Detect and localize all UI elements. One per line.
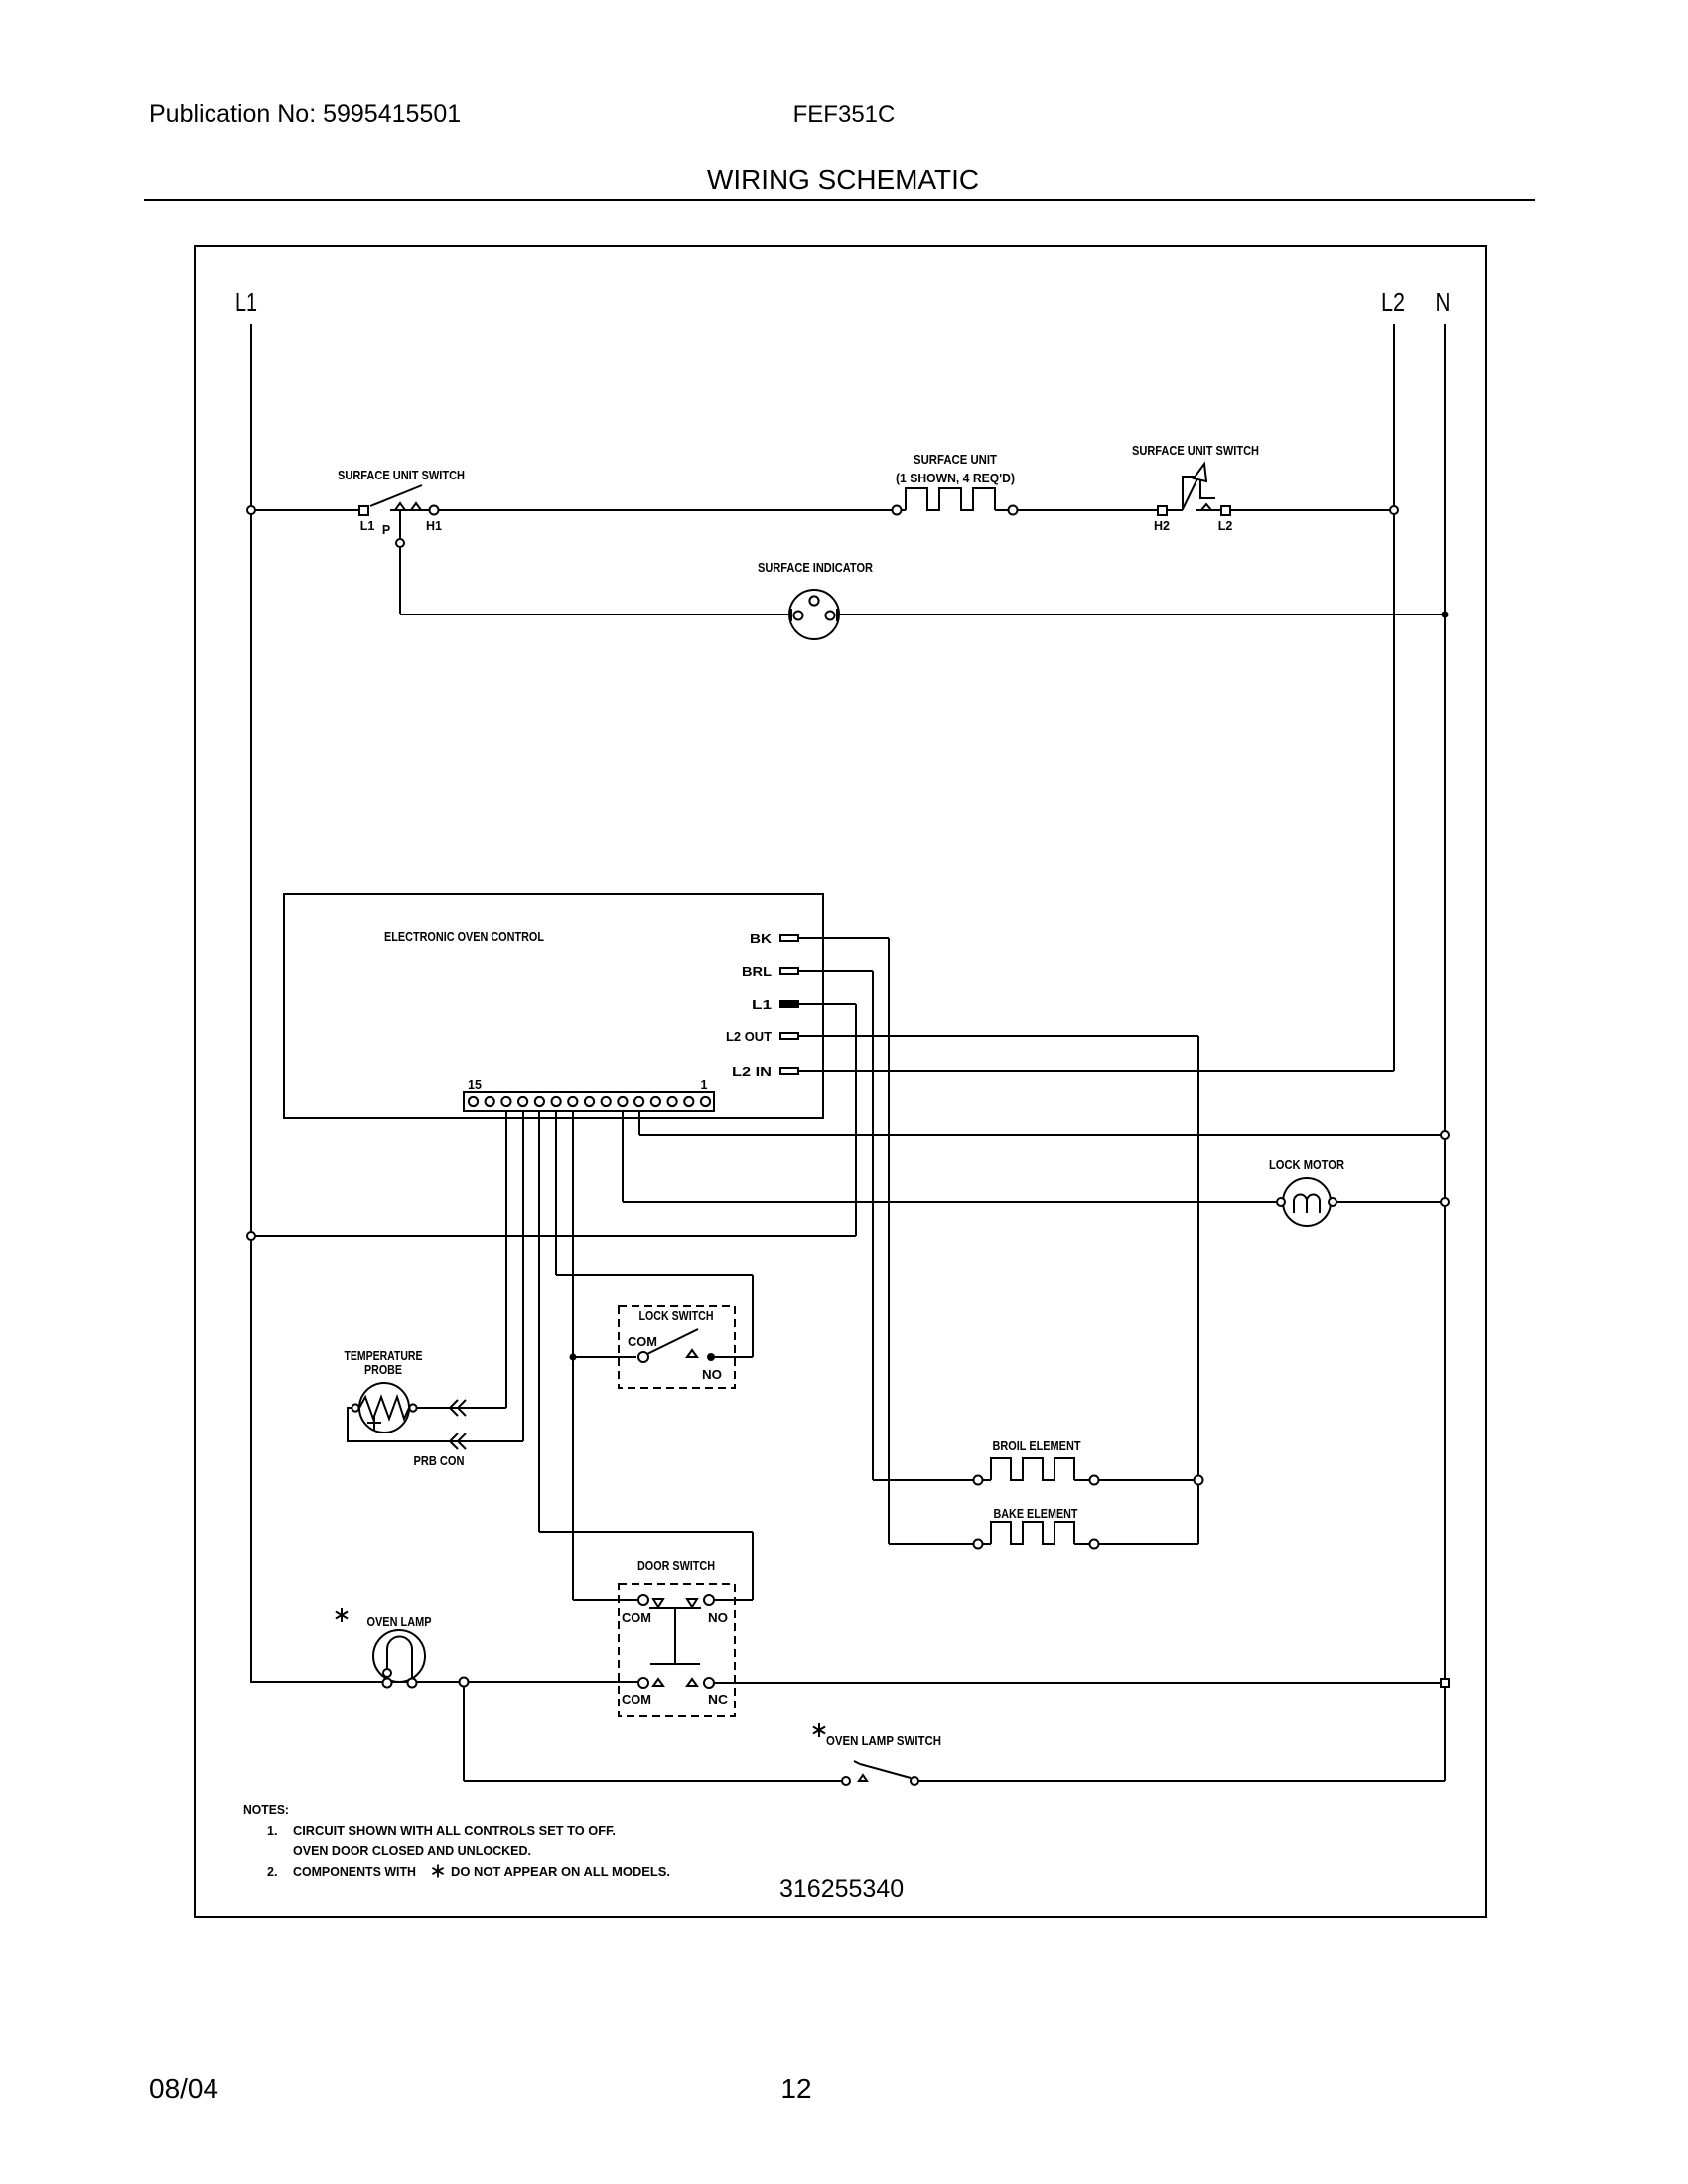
svg-text:1.: 1. [267,1824,277,1838]
svg-text:L2 OUT: L2 OUT [726,1030,772,1044]
lock switch S3 contacts [638,1352,648,1362]
wire L1 to surface unit switch [255,509,359,511]
oven lamp switch S5 [842,1777,850,1785]
svg-text:BROIL ELEMENT: BROIL ELEMENT [993,1439,1081,1453]
svg-text:OVEN DOOR CLOSED AND UNLOCKED.: OVEN DOOR CLOSED AND UNLOCKED. [293,1844,531,1858]
electronic oven control U1 box [284,894,823,1118]
U1 terminal L1 [780,1001,798,1007]
junction L2OUT / broil row [1195,1476,1203,1485]
svg-text:LOCK MOTOR: LOCK MOTOR [1269,1159,1344,1172]
temperature probe RT1 [359,1383,409,1433]
oven lamp DS2 [373,1630,425,1682]
surface unit heater element [893,506,902,515]
svg-text:NC: NC [708,1693,728,1706]
lock switch S3 dashed box [619,1306,735,1388]
junction N / lock motor row [1441,1198,1449,1206]
U1 connector pin strip [464,1092,714,1111]
junction L1 / U1-L1 row [247,1232,255,1240]
wire to oven lamp switch [464,1780,842,1782]
wire U1 L2 IN to L2 bus [798,1070,1394,1072]
wire pin5 to N bus [638,1111,640,1135]
wire U1 BRL to broil element [798,970,873,972]
lock motor M1 [1283,1178,1331,1226]
broil element R1 [974,1476,983,1485]
svg-text:TEMPERATURE: TEMPERATURE [345,1349,423,1363]
wire door switch NC to N bus [714,1682,1445,1684]
svg-text:NOTES:: NOTES: [243,1803,289,1817]
wire U1 L1 to L1 bus [798,1003,856,1005]
svg-text:BRL: BRL [742,965,772,979]
wire pin13 to temperature probe [505,1111,507,1408]
svg-text:P: P [382,523,390,537]
wire N bus vertical [1444,324,1446,1781]
wire pin6 row to lock motor [623,1201,1281,1203]
svg-text:SURFACE INDICATOR: SURFACE INDICATOR [758,561,873,575]
wire U1 L2 OUT to elements [798,1035,1198,1037]
door switch S4 dashed box [619,1584,735,1716]
wire pin9 to lock switch COM [573,1356,636,1358]
wire oven lamp switch to N bus [918,1780,1445,1782]
U1 terminal BRL [780,968,798,974]
svg-text:(1 SHOWN, 4 REQ'D): (1 SHOWN, 4 REQ'D) [896,472,1015,485]
svg-text:FEF351C: FEF351C [793,101,896,128]
wire pin6 to lock motor [622,1111,624,1202]
svg-text:Publication No: 5995415501: Publication No: 5995415501 [149,100,461,128]
bake element R2 [974,1540,983,1549]
wire lock switch NO to pin10 [715,1356,753,1358]
svg-text:2.: 2. [267,1865,277,1879]
wire BK to bake element [889,1543,973,1545]
wire pin9 to door switch COM [573,1599,638,1601]
svg-text:1: 1 [701,1078,708,1092]
svg-text:SURFACE UNIT SWITCH: SURFACE UNIT SWITCH [338,469,465,482]
wire L1 bus vertical [250,324,252,1683]
svg-text:H2: H2 [1154,519,1170,533]
svg-text:316255340: 316255340 [779,1875,904,1903]
svg-text:SURFACE UNIT: SURFACE UNIT [914,453,997,467]
svg-text:DOOR SWITCH: DOOR SWITCH [637,1559,715,1572]
wire pin12 to probe return [522,1111,524,1441]
surface unit switch S2 [1158,506,1167,515]
svg-text:OVEN LAMP SWITCH: OVEN LAMP SWITCH [826,1734,941,1748]
svg-text:PROBE: PROBE [364,1363,402,1377]
svg-text:PRB CON: PRB CON [414,1454,465,1468]
wire S1 P-pole drop [399,510,401,539]
svg-text:COM: COM [622,1611,651,1625]
svg-text:BAKE ELEMENT: BAKE ELEMENT [994,1507,1078,1521]
wire surface indicator to N bus [839,614,1445,615]
svg-text:SURFACE UNIT SWITCH: SURFACE UNIT SWITCH [1132,444,1259,458]
svg-text:L1: L1 [752,998,772,1012]
wire BRL to broil element [873,1479,973,1481]
wire junction drop to oven lamp switch [463,1687,465,1781]
wire S2 to L2 bus [1230,509,1394,511]
surface indicator lamp DS1 [789,590,839,639]
svg-text:H1: H1 [426,519,442,533]
surface unit switch S1 [359,506,368,515]
wire probe return to pin12 with connector [348,1408,523,1441]
svg-text:NO: NO [702,1368,722,1382]
oven lamp switch star mark [818,1723,820,1737]
svg-text:15: 15 [468,1078,482,1092]
svg-text:LOCK SWITCH: LOCK SWITCH [639,1309,714,1323]
wire P-pole to surface indicator [400,614,789,615]
svg-text:ELECTRONIC OVEN CONTROL: ELECTRONIC OVEN CONTROL [384,930,544,944]
svg-text:L2: L2 [1381,287,1405,317]
svg-text:DO NOT APPEAR ON ALL MODELS.: DO NOT APPEAR ON ALL MODELS. [451,1865,670,1879]
svg-text:L1: L1 [360,519,375,533]
svg-text:WIRING SCHEMATIC: WIRING SCHEMATIC [707,164,979,195]
wire L1 bus to oven lamp [251,1681,638,1683]
junction L1 / surface-unit row [247,506,255,514]
wire pin9 to switches COM [572,1111,574,1600]
wire broil element to L2 OUT [1099,1479,1198,1481]
wire lock motor to N bus [1336,1201,1445,1203]
U1 terminal BK [780,935,798,941]
door switch S4 lower contacts [638,1678,648,1688]
wire H1 to surface unit [439,509,893,511]
svg-text:OVEN LAMP: OVEN LAMP [367,1615,432,1629]
junction L2 / surface-unit row [1390,506,1398,514]
junction N / pin5 row [1441,1131,1449,1139]
wire U1 BK to bake element [798,937,889,939]
junction oven lamp row / lamp switch drop [460,1678,469,1687]
oven lamp star mark [341,1608,343,1622]
svg-text:BK: BK [750,932,772,946]
svg-text:NO: NO [708,1611,728,1625]
wire U1 L1 row to L1 bus [251,1235,856,1237]
svg-text:08/04: 08/04 [149,2073,218,2104]
svg-text:N: N [1436,287,1451,317]
svg-text:COM: COM [622,1693,651,1706]
wire pin5 row to N [639,1134,1445,1136]
wire pin11 to door switch NO [538,1111,540,1532]
wire L2 bus vertical [1393,324,1395,1071]
wire pin10 to lock switch NO [555,1111,557,1275]
svg-text:12: 12 [780,2073,811,2104]
junction N / indicator row [1442,612,1449,618]
U1 terminal L2 IN [780,1068,798,1074]
door switch S4 upper contacts [638,1595,648,1605]
wire surface unit to switch S2 [1018,509,1158,511]
svg-text:L1: L1 [235,287,257,317]
U1 terminal L2 OUT [780,1033,798,1039]
junction pin9 / lock switch COM [570,1354,577,1361]
wire pin11 to door switch NO loop [539,1531,753,1533]
door switch actuator [674,1608,676,1664]
wire probe to pin13 with connector [417,1407,506,1409]
svg-text:COM: COM [628,1335,657,1349]
svg-text:COMPONENTS WITH: COMPONENTS WITH [293,1865,416,1879]
svg-text:L2 IN: L2 IN [732,1065,772,1079]
svg-text:CIRCUIT SHOWN WITH ALL CONTROL: CIRCUIT SHOWN WITH ALL CONTROLS SET TO O… [293,1824,616,1838]
wire bake element to L2 OUT corner [1099,1543,1198,1545]
junction N / door NC row [1441,1679,1449,1687]
svg-text:L2: L2 [1218,519,1233,533]
